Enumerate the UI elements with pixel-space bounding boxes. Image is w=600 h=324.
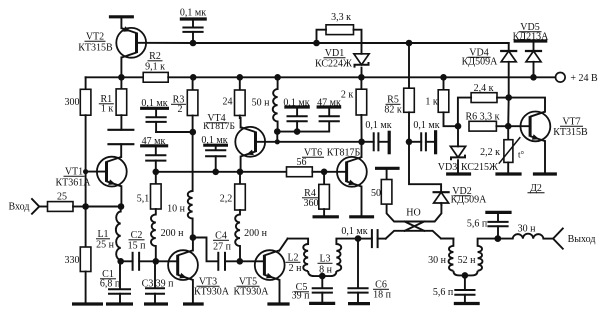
ground <box>109 15 134 18</box>
ground <box>388 131 391 155</box>
label KD509A VD2 <box>451 195 487 206</box>
node <box>190 129 197 136</box>
ground <box>434 130 437 154</box>
node <box>212 169 219 176</box>
ground <box>375 167 400 170</box>
resistor R1 <box>116 77 127 115</box>
wire <box>509 98 545 112</box>
inductor 50 н <box>273 77 278 131</box>
label VT7 <box>560 117 583 128</box>
capacitor 47 мк <box>145 146 166 172</box>
ground <box>144 302 168 305</box>
ground <box>106 302 133 305</box>
label R2 <box>148 51 163 62</box>
label 56 <box>297 157 307 168</box>
inductor 30 н <box>441 239 465 276</box>
node <box>406 40 413 47</box>
inductor L3 <box>322 239 358 277</box>
wire <box>444 76 534 78</box>
label 24 <box>223 97 233 108</box>
node <box>313 40 320 47</box>
node <box>319 273 326 280</box>
node <box>321 169 328 176</box>
node <box>494 235 501 242</box>
wire <box>444 112 459 126</box>
wire <box>277 131 297 133</box>
svg-text:360: 360 <box>304 198 319 209</box>
resistor R4 <box>319 172 330 209</box>
ground <box>454 302 480 305</box>
label t <box>518 150 525 160</box>
wire <box>279 239 287 251</box>
wire <box>361 187 363 216</box>
resistor R2 <box>143 72 168 82</box>
label C4 <box>213 231 229 242</box>
wire <box>121 76 143 78</box>
wire <box>156 260 178 262</box>
label 0,1 мк <box>201 135 227 146</box>
svg-text:КТ930А: КТ930А <box>234 287 270 298</box>
wire <box>361 142 363 157</box>
wire <box>240 76 278 78</box>
label VD4 <box>468 48 491 59</box>
capacitor C2 <box>121 252 156 271</box>
label 10 н <box>167 204 186 215</box>
wire <box>458 98 471 127</box>
label 6,8 п <box>100 279 121 290</box>
label C5 <box>294 282 309 293</box>
wire <box>192 238 194 251</box>
capacitor C6 <box>347 239 368 303</box>
node <box>237 74 244 81</box>
wire <box>544 141 546 172</box>
label 25 <box>57 192 67 203</box>
wire <box>193 76 240 78</box>
wire <box>508 43 510 51</box>
resistor 3,3 к <box>326 25 354 35</box>
label KT315V VT7 <box>553 127 588 138</box>
node <box>505 94 512 101</box>
label 5,6 п top <box>467 219 488 230</box>
transistor VT6 <box>337 157 367 187</box>
wire <box>361 68 363 78</box>
wire <box>323 209 325 215</box>
svg-text:5,6 п: 5,6 п <box>467 219 488 230</box>
label 39 п <box>292 291 311 302</box>
wire <box>508 62 510 98</box>
ground <box>183 302 204 305</box>
svg-text:НО: НО <box>406 208 420 219</box>
capacitor 5,6 п <box>487 212 508 238</box>
label L1 <box>96 229 110 240</box>
svg-text:39 п: 39 п <box>292 291 311 302</box>
node <box>190 74 197 81</box>
svg-text:50: 50 <box>371 188 381 199</box>
wire <box>278 76 362 78</box>
svg-text:2,2: 2,2 <box>220 194 233 205</box>
connector output <box>553 229 563 249</box>
wire <box>312 171 324 173</box>
capacitor 0,1 мк <box>409 132 434 151</box>
resistor 24 <box>235 77 246 115</box>
label 2 <box>178 104 183 115</box>
wire <box>240 171 287 173</box>
transistor VT4 <box>235 127 265 157</box>
label KT361A <box>56 178 92 189</box>
wire <box>193 238 218 262</box>
wire <box>192 280 194 303</box>
label 2,2 к <box>480 147 500 158</box>
label 1 к <box>425 97 438 108</box>
svg-text:0,1 мк: 0,1 мк <box>341 226 367 237</box>
inductor 200 н <box>235 210 240 261</box>
wire <box>137 42 194 44</box>
svg-text:200 н: 200 н <box>244 228 268 239</box>
wire <box>440 203 442 205</box>
svg-text:39 п: 39 п <box>156 279 175 290</box>
resistor R3 <box>187 77 198 115</box>
svg-text:Выход: Выход <box>568 234 596 245</box>
diode VD2 <box>433 192 450 203</box>
label 50 <box>371 188 381 199</box>
diode VD3 <box>450 146 465 160</box>
label 5,6 п bottom <box>433 287 454 298</box>
node <box>118 74 125 81</box>
label VT4 <box>206 113 227 124</box>
label 82 к <box>384 105 402 116</box>
label VD3 <box>438 162 457 173</box>
label VT1 <box>64 167 85 178</box>
label KT315V VT2 <box>78 43 113 54</box>
node <box>83 169 88 174</box>
ground <box>309 302 335 305</box>
node <box>440 74 447 81</box>
svg-text:C3: C3 <box>142 279 154 290</box>
capacitor 5,6 п <box>454 275 475 302</box>
ground <box>349 215 374 218</box>
wire <box>256 141 278 143</box>
svg-text:2,2 к: 2,2 к <box>480 147 500 158</box>
label 30 н <box>428 255 447 266</box>
resistor R5 <box>404 43 415 112</box>
node <box>237 169 244 176</box>
svg-text:КТ930А: КТ930А <box>194 287 230 298</box>
wire <box>156 171 216 173</box>
svg-text:2 к: 2 к <box>341 90 354 101</box>
svg-text:2: 2 <box>178 104 183 115</box>
resistor 56 <box>287 167 313 177</box>
capacitor 0,1 мк <box>146 108 167 132</box>
ground <box>446 172 471 175</box>
svg-text:5,1: 5,1 <box>137 194 150 205</box>
label KT817B VT6 <box>327 148 361 159</box>
svg-text:0,1 мк: 0,1 мк <box>413 120 439 131</box>
label C6 <box>373 280 389 291</box>
svg-text:300: 300 <box>65 97 80 108</box>
svg-text:9,1 к: 9,1 к <box>145 62 165 73</box>
svg-text:30 н: 30 н <box>428 255 447 266</box>
label 2 к <box>341 90 354 101</box>
ground <box>203 144 228 147</box>
svg-text:0,1 мк: 0,1 мк <box>180 8 206 19</box>
wire <box>507 162 509 172</box>
label Д2 <box>528 183 545 194</box>
label R6 3,3 к <box>465 112 499 123</box>
label 0,1 мк <box>341 226 367 237</box>
resistor 2,4 к <box>471 93 497 103</box>
connector input <box>32 199 39 214</box>
ground <box>514 39 548 42</box>
inductor 30 н out <box>498 234 553 239</box>
svg-text:30 н: 30 н <box>518 224 537 235</box>
svg-text:КД509А: КД509А <box>451 195 487 206</box>
ground <box>348 302 370 305</box>
wire <box>73 206 86 208</box>
label VT2 <box>85 32 106 43</box>
wire <box>277 141 361 143</box>
wire <box>324 171 347 173</box>
wire <box>534 76 556 78</box>
svg-text:52 н: 52 н <box>458 255 477 266</box>
resistor 1 к <box>438 77 449 112</box>
label 0,1 мк <box>180 8 206 19</box>
ground <box>317 105 342 108</box>
ground <box>485 211 511 214</box>
node <box>455 123 462 130</box>
label KD509A VD4 <box>462 57 498 68</box>
label 2,4 к <box>474 83 494 94</box>
node <box>190 234 197 241</box>
label 0,1 мк <box>413 120 439 131</box>
label + 24 В <box>570 73 598 84</box>
label 200 н <box>161 228 185 239</box>
label KT930A VT3 <box>194 287 230 298</box>
node <box>358 74 365 81</box>
label L2 <box>286 253 301 264</box>
resistor 5,1 <box>151 172 162 209</box>
resistor 300 <box>80 77 91 115</box>
label 0,1 мк <box>141 98 167 109</box>
capacitor 0,1 мк <box>362 132 388 151</box>
ground <box>140 107 169 110</box>
thermistor 2,2 к <box>499 126 521 164</box>
wire <box>533 41 535 51</box>
label VT6 <box>302 148 324 159</box>
label VT5 <box>237 277 260 288</box>
wire <box>317 30 327 43</box>
label KS224Zh <box>315 59 352 70</box>
label 8 н <box>319 265 333 276</box>
wire <box>508 125 530 127</box>
resistor 2,2 <box>235 172 246 210</box>
node A <box>190 40 197 47</box>
ground <box>495 172 521 175</box>
label 360 <box>304 198 319 209</box>
svg-text:0,1 мк: 0,1 мк <box>365 120 391 131</box>
transistor VT3 <box>168 250 198 280</box>
label 9,1 к <box>145 62 165 73</box>
node <box>153 169 160 176</box>
label VT3 <box>197 277 220 288</box>
wire <box>168 76 193 78</box>
transistor VT2 <box>116 26 146 57</box>
wire <box>86 171 107 173</box>
label R3 <box>171 95 186 106</box>
wire <box>507 98 510 127</box>
wire <box>156 131 193 133</box>
capacitor C4 <box>218 252 225 271</box>
capacitor C3 <box>145 261 165 302</box>
label R1 <box>99 94 114 105</box>
ground <box>313 215 339 218</box>
node <box>118 203 125 210</box>
wire <box>354 30 362 54</box>
svg-text:1 к: 1 к <box>425 97 438 108</box>
label 0,1 мк <box>283 97 309 108</box>
resistor 2 к <box>356 77 367 115</box>
svg-text:200 н: 200 н <box>161 228 185 239</box>
label 0,1 мк <box>365 120 391 131</box>
ground <box>267 302 289 305</box>
inductor 52 н <box>465 239 498 276</box>
wire <box>39 206 47 208</box>
label 27 п <box>213 242 232 253</box>
svg-text:КТ817Б: КТ817Б <box>203 122 235 132</box>
wire <box>240 260 265 262</box>
node <box>274 74 281 81</box>
node <box>505 123 512 130</box>
wire <box>216 171 240 173</box>
svg-text:3,3 к: 3,3 к <box>331 12 351 23</box>
resistor 330 <box>80 207 91 272</box>
resistor 25 <box>48 202 74 212</box>
svg-text:82 к: 82 к <box>384 105 402 116</box>
svg-text:50 н: 50 н <box>252 98 271 109</box>
label 2,2 <box>220 194 233 205</box>
svg-text:15 п: 15 п <box>128 241 147 252</box>
label VD1 <box>324 48 346 59</box>
inductor L2 <box>303 244 322 276</box>
label C2 <box>129 230 145 241</box>
node <box>294 128 301 135</box>
svg-text:330: 330 <box>65 255 80 266</box>
node <box>275 139 280 144</box>
svg-text:КД213А: КД213А <box>513 32 549 43</box>
svg-text:24: 24 <box>223 97 233 108</box>
label 30 н out <box>518 224 537 235</box>
label 3,3 к <box>331 12 351 23</box>
diode VD1 <box>354 54 369 68</box>
wire <box>408 112 410 142</box>
wire <box>288 239 309 244</box>
ground <box>140 144 168 147</box>
label Выход <box>568 234 596 245</box>
svg-text:1 к: 1 к <box>101 104 114 115</box>
label KT817B VT4 <box>203 122 235 132</box>
svg-text:2 н: 2 н <box>289 263 303 274</box>
label 47 мк <box>317 97 341 108</box>
label KT930A VT5 <box>234 287 270 298</box>
label 15 п <box>128 241 147 252</box>
capacitor 0,1 мк <box>358 229 386 248</box>
ground <box>180 17 207 20</box>
transistor VT5 <box>255 250 285 280</box>
node <box>462 272 469 279</box>
svg-text:10 н: 10 н <box>167 204 186 215</box>
svg-text:+ 24 В: + 24 В <box>570 73 598 84</box>
label 25 н <box>96 240 115 251</box>
label C1 <box>100 269 116 280</box>
terminal +24V <box>556 73 566 83</box>
wire <box>279 280 281 303</box>
svg-text:Вход: Вход <box>9 202 30 213</box>
diode VD5 <box>525 51 542 62</box>
label 300 <box>65 97 80 108</box>
svg-text:8 н: 8 н <box>319 265 333 276</box>
label 50 н <box>252 98 271 109</box>
capacitor C5 <box>312 276 333 302</box>
wire <box>120 186 122 206</box>
wire <box>276 132 278 142</box>
wire <box>240 157 242 172</box>
svg-text:КС224Ж: КС224Ж <box>315 59 352 70</box>
wire <box>457 160 459 172</box>
capacitor 47 мк <box>319 107 340 121</box>
wire <box>317 42 410 44</box>
svg-text:t°: t° <box>518 150 525 160</box>
svg-text:КС215Ж: КС215Ж <box>461 162 498 173</box>
node <box>358 139 365 146</box>
wire <box>85 115 87 206</box>
label 47 мк <box>142 136 166 147</box>
wire <box>86 206 121 208</box>
inductor 200 н <box>151 209 156 261</box>
node <box>274 128 281 135</box>
capacitor 0,1 мк <box>205 145 226 172</box>
node <box>355 235 362 242</box>
wire <box>120 17 122 28</box>
coupler НО <box>386 205 454 239</box>
svg-text:КТ315В: КТ315В <box>553 127 588 138</box>
wire <box>360 115 362 142</box>
label Вход <box>9 202 30 213</box>
ground <box>72 302 103 305</box>
node <box>406 139 413 146</box>
label 5,1 <box>137 194 150 205</box>
svg-text:КТ315В: КТ315В <box>78 43 113 54</box>
wire <box>497 97 509 99</box>
capacitor 0,1 мк <box>182 19 203 43</box>
label KS215Zh <box>461 162 498 173</box>
svg-text:КД509А: КД509А <box>462 57 498 68</box>
label L3 <box>318 254 333 265</box>
label 2 н <box>289 263 303 274</box>
capacitor 0,1 мк <box>287 107 308 132</box>
diode VD4 <box>500 51 517 62</box>
resistor 50 <box>381 168 392 204</box>
label R4 <box>302 188 318 199</box>
svg-text:VD3: VD3 <box>438 162 457 173</box>
wire <box>193 42 317 44</box>
inductor L1 <box>116 207 121 262</box>
transistor VT7 <box>521 112 551 142</box>
label VD2 <box>452 186 471 197</box>
ground <box>284 105 310 108</box>
wire <box>457 126 459 146</box>
transistor VT1 <box>97 157 127 187</box>
svg-text:18 п: 18 п <box>373 290 392 301</box>
svg-text:КТ361А: КТ361А <box>56 178 92 189</box>
